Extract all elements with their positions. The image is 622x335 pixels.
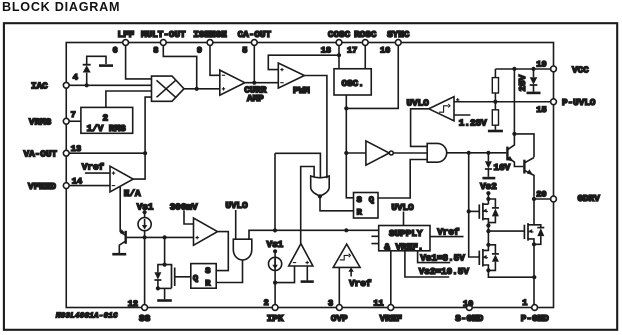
pin 14 VFEED xyxy=(63,183,69,189)
wire SYNC pin to oscillator output xyxy=(346,45,398,108)
wire E/A output riser to VA-OUT and multiplier input 4 xyxy=(133,97,151,179)
inverter U2 xyxy=(366,141,389,165)
svg-text:S-GND: S-GND xyxy=(455,313,483,324)
svg-text:SYNC: SYNC xyxy=(387,29,410,40)
node VCC rail tap 1 xyxy=(512,67,516,71)
svg-text:AMP: AMP xyxy=(247,93,264,104)
svg-text:15: 15 xyxy=(536,105,546,115)
svg-text:PWM: PWM xyxy=(293,85,310,96)
wire VA-OUT pin line xyxy=(69,152,145,154)
pin 17 ROSC xyxy=(362,40,368,46)
node VCC rail tap 2 xyxy=(531,67,535,71)
wire comparator IPK output to OR gate xyxy=(301,167,314,244)
node P-GND junction xyxy=(532,275,536,279)
svg-text:16: 16 xyxy=(380,45,390,55)
svg-text:Vref: Vref xyxy=(437,227,460,238)
svg-text:11: 11 xyxy=(373,298,383,308)
svg-text:GDRV: GDRV xyxy=(578,193,601,204)
pin 2 IPK xyxy=(272,305,278,311)
node oscillator-SYNC junction xyxy=(344,106,348,110)
node oscillator-inverter junction xyxy=(344,151,348,155)
svg-text:CA-OUT: CA-OUT xyxy=(238,29,272,40)
wire E/A output to clamp transistor emitter xyxy=(119,187,121,232)
wire IPK pin to comparator input xyxy=(275,266,294,283)
zener Z2 16V xyxy=(487,153,489,161)
block 1/V RMS divider xyxy=(81,107,133,133)
svg-text:1: 1 xyxy=(522,298,527,308)
svg-text:P-GND: P-GND xyxy=(521,313,549,324)
comparator U6 300mV xyxy=(194,218,218,245)
node discharge fet source xyxy=(156,286,160,290)
comparator U7 IPK xyxy=(289,244,313,266)
wire latch Q output to AND gate input xyxy=(378,160,427,199)
node M3 source xyxy=(532,242,536,246)
wire LFF to multiplier input 1 xyxy=(126,45,152,79)
svg-text:1.28V: 1.28V xyxy=(459,118,487,129)
node soft start junction xyxy=(143,235,147,239)
pin 13 VA-OUT xyxy=(63,150,69,156)
svg-text:8: 8 xyxy=(153,45,158,55)
diode M1 body xyxy=(488,199,495,223)
node CA-OUT junction xyxy=(252,81,256,85)
pin 7 VRMS xyxy=(63,118,69,124)
comparator U8 OVP xyxy=(333,244,360,267)
wire OR gate output to latch R input xyxy=(320,195,354,211)
node M1 source xyxy=(486,223,490,227)
wire VRMS pin to 1/V RMS box xyxy=(69,120,81,122)
pin 6 LFF xyxy=(123,40,129,46)
svg-text:Vs1: Vs1 xyxy=(267,239,284,250)
wire PWM output to OR gate xyxy=(304,76,327,179)
node Vs2 feed xyxy=(486,191,490,195)
svg-text:2: 2 xyxy=(264,298,269,308)
node VA-OUT junction xyxy=(143,151,147,155)
svg-text:Q: Q xyxy=(193,273,198,283)
svg-text:VRMS: VRMS xyxy=(29,117,52,128)
wire UVLO comparator reference stub xyxy=(454,114,470,116)
svg-text:5: 5 xyxy=(242,45,247,55)
transistor M0 soft start discharge mosfet xyxy=(165,265,172,267)
wire 300mV comparator output to latch S xyxy=(216,232,228,271)
wire AND output to driver base xyxy=(447,152,507,154)
wire COSC pin to oscillator xyxy=(338,45,340,68)
or-gate U4 pwm reset xyxy=(311,176,330,196)
node IPK junction xyxy=(273,281,277,285)
node driver collector junction xyxy=(512,132,516,136)
transistor Q2 NPN driver xyxy=(523,160,525,174)
comparator UVLO undervoltage xyxy=(429,97,454,121)
wire oscillator output down to latch S input xyxy=(346,95,353,198)
zener Z0 soft start clamp xyxy=(158,265,165,273)
ground soft start discharge xyxy=(164,288,166,299)
block OSC. oscillator xyxy=(334,69,371,95)
wire inverter output to AND gate xyxy=(393,152,427,154)
and-gate U5 shutdown xyxy=(233,239,252,260)
svg-text:7: 7 xyxy=(71,110,76,120)
wire VFEED pin to E/A input xyxy=(69,185,110,187)
svg-text:10: 10 xyxy=(463,299,473,309)
wire current source to SS pin xyxy=(144,231,146,305)
supply block SUPPLY & VREF xyxy=(379,226,430,251)
svg-text:VA-OUT: VA-OUT xyxy=(24,149,58,160)
svg-text:IPK: IPK xyxy=(267,313,284,324)
svg-text:MULT-OUT: MULT-OUT xyxy=(141,29,186,40)
pin 16 SYNC xyxy=(395,40,401,46)
wire GDRV node xyxy=(528,196,534,225)
svg-text:VCC: VCC xyxy=(572,64,589,75)
pin 19 VCC xyxy=(551,66,557,72)
svg-text:SS: SS xyxy=(139,313,151,324)
power tap Vs2 bar xyxy=(482,177,495,180)
svg-text:IAC: IAC xyxy=(31,81,48,92)
multiplier X1 xyxy=(152,76,185,101)
wire MULT-OUT pin to multiplier output xyxy=(163,45,196,89)
ground Q3 collector xyxy=(112,253,126,256)
pin 11 VREF xyxy=(388,305,394,311)
pin 18 COSC xyxy=(336,40,342,46)
svg-text:9: 9 xyxy=(197,45,202,55)
node M3 gate tap xyxy=(486,229,490,233)
pin 9 ISENSE xyxy=(207,40,213,46)
wire D1 cathode to clamp plate xyxy=(87,56,106,64)
svg-text:14: 14 xyxy=(72,176,82,186)
pin 1 P-GND xyxy=(532,305,538,311)
pin 5 CA-OUT xyxy=(251,40,257,46)
IC boundary box xyxy=(66,43,553,308)
wire oscillator output to inverter input xyxy=(346,152,366,154)
node COSC ramp junction xyxy=(337,53,341,57)
svg-text:UVLO: UVLO xyxy=(391,202,414,213)
svg-text:& VREF.: & VREF. xyxy=(384,241,423,252)
diode D1 clamp xyxy=(86,73,88,86)
pin 12 SS xyxy=(142,305,148,311)
svg-text:R: R xyxy=(357,208,363,218)
wire multiplier output to CURR AMP xyxy=(184,88,220,90)
wire soft-start control line xyxy=(127,236,194,238)
wire ROSC pin to oscillator xyxy=(364,45,366,68)
ground divider xyxy=(488,130,503,133)
svg-text:M93L4981A-01C: M93L4981A-01C xyxy=(55,313,118,321)
wire GDRV to pin xyxy=(534,198,551,200)
zener Z1 25V xyxy=(533,69,535,77)
node discharge fet junction xyxy=(163,235,167,239)
wire UVLO comparator output to AND gate input xyxy=(411,109,429,147)
svg-text:ROSC: ROSC xyxy=(354,29,377,40)
node GDRV junction xyxy=(532,197,536,201)
svg-text:Vs2: Vs2 xyxy=(480,181,497,192)
wire VREF pin to supply block xyxy=(390,251,392,305)
svg-text:OSC.: OSC. xyxy=(342,78,364,89)
svg-text:LFF: LFF xyxy=(118,29,135,40)
latch FF1 SR xyxy=(354,193,379,219)
node disable-IPK junction xyxy=(273,228,277,232)
transistor Q3 PNP clamp xyxy=(124,231,126,244)
pin 10 S-GND xyxy=(466,305,472,311)
node disable-OVP junction xyxy=(344,228,348,232)
svg-text:13: 13 xyxy=(71,144,81,154)
ground zener 25V xyxy=(527,92,541,95)
svg-text:S: S xyxy=(357,195,362,205)
node M2 drain xyxy=(486,243,490,247)
svg-text:ISENSE: ISENSE xyxy=(193,29,227,40)
bus disable line xyxy=(249,230,379,239)
node multiplier output junction xyxy=(195,87,199,91)
svg-text:P-UVLO: P-UVLO xyxy=(562,97,596,108)
svg-text:4: 4 xyxy=(73,72,78,82)
latch FF2 SR soft-start xyxy=(191,264,216,289)
wire Vs2 to M1 drain xyxy=(487,193,489,204)
svg-text:Vref: Vref xyxy=(82,162,105,173)
svg-text:2: 2 xyxy=(103,112,109,123)
svg-text:Q: Q xyxy=(369,195,374,205)
pin 8 MULT-OUT xyxy=(160,40,166,46)
svg-text:19: 19 xyxy=(536,59,546,69)
diode M3 body xyxy=(534,225,541,245)
wire VCC to driver collectors xyxy=(514,69,534,157)
wire Vref arrow to OVP comparator xyxy=(350,271,352,277)
node IPK source top xyxy=(273,249,277,253)
wire CURR AMP output to PWM input xyxy=(245,82,278,84)
and-gate U3 xyxy=(427,143,447,162)
wire gate drive vertical xyxy=(469,153,480,257)
wire Vref output stub xyxy=(430,236,464,238)
wire Vs1 supply stub xyxy=(418,251,451,263)
svg-text:6: 6 xyxy=(113,45,118,55)
pin 15 P-UVLO xyxy=(551,99,557,105)
svg-text:20: 20 xyxy=(536,190,546,200)
node M2 source xyxy=(486,268,490,272)
wire IAC line to multiplier input 2 xyxy=(69,84,151,86)
node gate drive tap xyxy=(467,151,471,155)
svg-text:1/V RMS: 1/V RMS xyxy=(87,123,126,134)
op-amp CURR AMP xyxy=(220,70,245,95)
resistor R1 divider xyxy=(492,78,498,93)
node M1 drain diode tap xyxy=(486,197,490,201)
wire M2 source to P-GND rail xyxy=(488,270,534,277)
ground clamp plate xyxy=(99,64,113,67)
svg-text:UVLO: UVLO xyxy=(225,200,248,211)
wire P-UVLO line comparator input xyxy=(454,101,551,103)
node OR gate output xyxy=(318,194,322,198)
transistor M3 output mosfet xyxy=(523,225,525,239)
transistor Q1 NPN driver xyxy=(506,147,508,161)
wire disable net to OR gate xyxy=(275,153,320,230)
svg-text:16V: 16V xyxy=(494,162,511,173)
svg-text:12: 12 xyxy=(128,299,138,309)
node discharge fet drain xyxy=(163,263,167,267)
pin 3 OVP xyxy=(336,305,342,311)
diode M2 body xyxy=(488,245,495,271)
wire M3 source to P-GND pin xyxy=(533,244,535,304)
svg-text:17: 17 xyxy=(347,45,357,55)
svg-text:Vs2=10.5V: Vs2=10.5V xyxy=(419,266,470,277)
wire shutdown AND output to latch R xyxy=(216,260,242,283)
svg-text:UVLO: UVLO xyxy=(407,98,430,109)
svg-text:S: S xyxy=(205,266,210,276)
transistor M2 driver mosfet xyxy=(478,251,480,265)
wire ISENSE pin to CURR AMP input xyxy=(210,45,220,75)
svg-text:VFEED: VFEED xyxy=(28,181,56,192)
ground IPK comparator reference xyxy=(306,266,308,280)
op-amp E/A error amplifier xyxy=(110,166,133,192)
wire Vs2 supply stub xyxy=(405,251,449,277)
wire OVP pin to comparator xyxy=(338,267,340,304)
node IAC clamp junction xyxy=(85,83,89,87)
svg-text:OVP: OVP xyxy=(331,313,348,324)
svg-text:COSC: COSC xyxy=(328,29,351,40)
wire CA-OUT pin drop xyxy=(253,45,255,82)
transistor M1 driver mosfet xyxy=(469,210,480,212)
svg-text:25V: 25V xyxy=(517,74,528,91)
wire latch Q to IPK comparator input line xyxy=(274,251,276,304)
wire 1/V RMS output to multiplier input 3 xyxy=(106,91,152,107)
svg-text:3: 3 xyxy=(328,298,333,308)
pin 20 GDRV xyxy=(551,196,557,202)
pin 4 IAC xyxy=(63,82,69,88)
resistor R2 divider xyxy=(492,110,498,125)
svg-text:Vref: Vref xyxy=(349,278,372,289)
svg-text:VREF: VREF xyxy=(380,313,403,324)
svg-text:R: R xyxy=(205,278,211,288)
svg-text:E/A: E/A xyxy=(124,188,141,199)
node divider tap xyxy=(493,100,497,104)
svg-text:18: 18 xyxy=(321,45,331,55)
node zener 16V tap xyxy=(486,151,490,155)
comparator PWM xyxy=(278,63,304,88)
wire VCC rail xyxy=(495,69,550,78)
svg-text:Vs1=8.5V: Vs1=8.5V xyxy=(420,252,465,263)
wire junction to discharge fet drain xyxy=(164,237,166,264)
wire M1 source to M3 gate xyxy=(488,226,524,245)
svg-text:SUPPLY: SUPPLY xyxy=(389,228,423,239)
node M1 gate tap xyxy=(467,209,471,213)
wire oscillator ramp to PWM input xyxy=(268,55,339,69)
